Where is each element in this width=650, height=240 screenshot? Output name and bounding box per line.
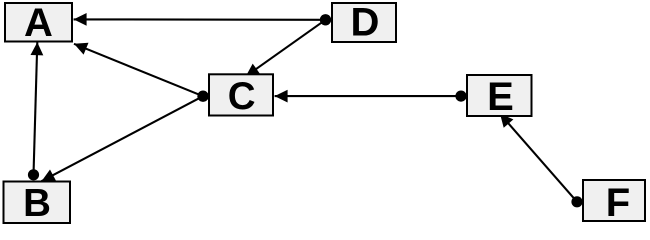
node C xyxy=(209,74,273,118)
wire edge B to A xyxy=(28,42,43,180)
wire edge F to E xyxy=(500,114,583,208)
node B xyxy=(4,182,71,226)
node E xyxy=(467,75,532,119)
wire edge C to A xyxy=(74,43,209,102)
wire edge E to C xyxy=(275,90,467,103)
wire edge C to B xyxy=(42,91,209,182)
svg-text:E: E xyxy=(487,75,514,119)
svg-text:B: B xyxy=(23,182,51,225)
wire edge D to A xyxy=(74,13,332,26)
node A xyxy=(5,1,72,45)
node F xyxy=(583,180,645,225)
svg-text:A: A xyxy=(24,1,53,45)
svg-text:F: F xyxy=(606,181,630,225)
wire edge D to C xyxy=(246,14,331,76)
svg-text:C: C xyxy=(228,75,256,118)
node D xyxy=(332,0,396,44)
svg-text:D: D xyxy=(351,0,380,44)
